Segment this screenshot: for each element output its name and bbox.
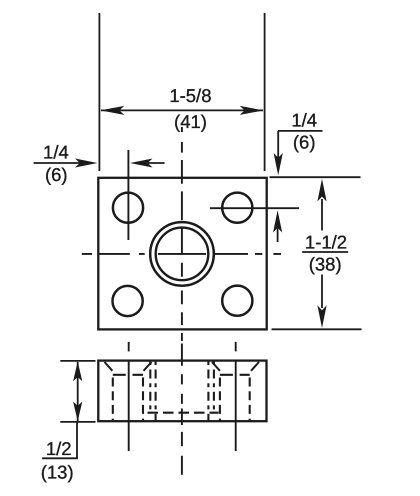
side view centerline left hole stub — [128, 342, 130, 352]
leader drop right 1/4 — [277, 131, 279, 158]
arrow line toward hole centerline (left 1/4) — [148, 162, 165, 164]
arrowhead to block edge (left 1/4) — [75, 159, 98, 168]
countersink chamfer left hole left — [105, 362, 113, 371]
svg-text:(13): (13) — [41, 462, 74, 483]
svg-text:1/2: 1/2 — [46, 438, 72, 459]
dimension leader left 1/4 — [34, 162, 92, 164]
top view block outline — [98, 178, 266, 330]
countersink chamfer left hole right — [144, 362, 152, 371]
svg-text:(38): (38) — [309, 254, 342, 275]
extension line right (1-5/8) — [264, 13, 266, 171]
arrowhead up to hole centerline (right 1/4) — [273, 210, 282, 232]
countersink chamfer right hole right — [251, 362, 259, 371]
underline 1-1/2 — [302, 251, 348, 253]
arrowhead right 1-5/8 — [240, 106, 264, 115]
dimension line lower segment (1-1/2) — [321, 275, 323, 309]
hidden line right hole right — [249, 378, 251, 421]
hole bottom-left — [113, 286, 143, 316]
arrowhead to hole centerline (left 1/4) — [130, 159, 153, 168]
center hole outer circle (counterbore) — [150, 222, 214, 286]
hidden line center hole outer left — [149, 361, 151, 413]
hidden line countersink bottom right hole — [220, 374, 250, 376]
arrowhead left 1-5/8 — [100, 106, 124, 115]
arrow tail up arrow (right 1/4) — [277, 228, 279, 242]
leader 1/2 vertical — [76, 422, 78, 458]
underline 1/2 — [42, 457, 78, 459]
arrowhead up (1-1/2) — [317, 179, 326, 202]
arrowhead down to top edge (right 1/4) — [274, 153, 283, 175]
countersink chamfer right hole left — [212, 362, 220, 371]
arrowhead up (1/2) — [73, 362, 82, 382]
svg-text:(41): (41) — [174, 111, 207, 132]
dimension line 1/2 — [77, 362, 79, 421]
hidden line left hole right — [142, 378, 144, 421]
svg-text:(6): (6) — [45, 164, 68, 185]
side view centerline right hole stub — [235, 342, 237, 352]
side view block outline — [98, 361, 266, 422]
svg-text:1-5/8: 1-5/8 — [169, 85, 211, 106]
hidden line center hole inner left — [155, 361, 157, 421]
hidden line counterbore bottom — [148, 412, 219, 414]
extension line top (1/2) — [60, 360, 95, 362]
hidden line center hole inner right — [207, 361, 209, 421]
centerline through top-left hole — [127, 150, 129, 240]
underline right 1/4 — [278, 130, 323, 132]
svg-text:1-1/2: 1-1/2 — [305, 232, 347, 253]
extension line top right (1-1/2) — [270, 176, 361, 178]
extension line bottom right (1-1/2) — [272, 328, 362, 330]
vertical centerline top view and side view — [181, 127, 183, 475]
hidden line center hole outer right — [213, 361, 215, 413]
hole top-right — [222, 193, 252, 223]
svg-text:(6): (6) — [293, 132, 316, 153]
horizontal centerline top view — [82, 253, 281, 255]
svg-text:1/4: 1/4 — [291, 110, 317, 131]
side view centerline left hole — [128, 361, 130, 451]
extension line bottom (1/2) — [60, 421, 95, 423]
hole bottom-right — [222, 286, 252, 316]
centerline through top-right hole — [210, 207, 299, 209]
dimension line upper segment (1-1/2) — [321, 199, 323, 231]
hidden line right hole left — [219, 378, 221, 421]
svg-text:1/4: 1/4 — [43, 142, 69, 163]
hole top-left — [113, 193, 143, 223]
arrowhead down (1/2) — [73, 402, 82, 422]
hidden line countersink bottom left hole — [113, 374, 143, 376]
hidden line left hole left — [112, 378, 114, 421]
extension line left (1-5/8) — [98, 13, 100, 171]
center hole inner circle — [156, 228, 209, 281]
side view centerline right hole — [235, 361, 237, 451]
dimension line 1-5/8 — [101, 109, 263, 111]
arrowhead down (1-1/2) — [317, 305, 326, 328]
